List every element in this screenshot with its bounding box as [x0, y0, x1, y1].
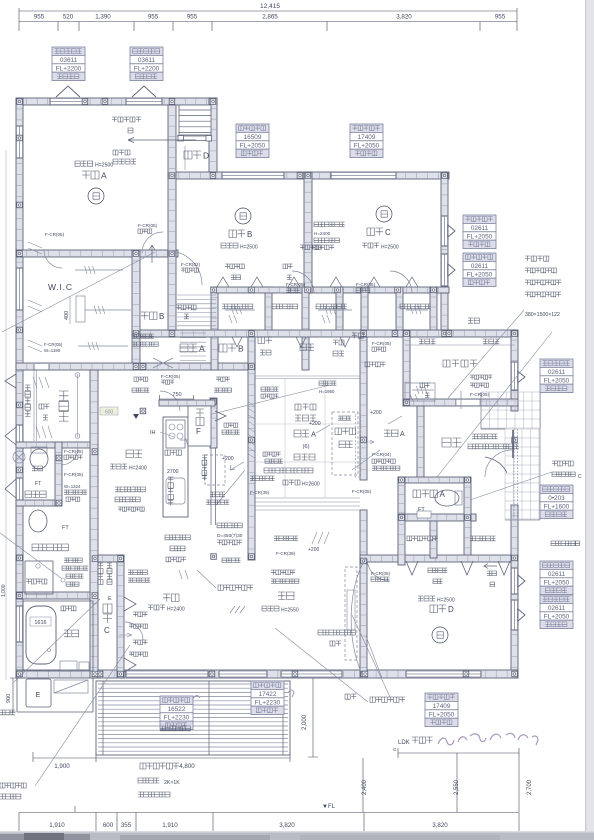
svg-text:02611: 02611 — [548, 605, 566, 612]
cloak label — [443, 360, 450, 367]
drying room hatch top — [33, 377, 49, 388]
bottom dimension line — [19, 812, 519, 814]
svg-text:B: B — [159, 312, 164, 321]
suno-ko shelf note hall B — [176, 305, 181, 310]
aircon dashed — [332, 412, 358, 475]
door arc kitchen — [160, 391, 180, 411]
wall kitchen top — [159, 400, 215, 406]
sansui label 1 — [352, 333, 357, 338]
porch dotted step lines — [514, 429, 518, 518]
upper shelf note small — [222, 558, 226, 562]
wall cloak bottom — [403, 399, 518, 406]
water filter note — [115, 487, 120, 492]
porch bottom left — [17, 678, 93, 712]
leader lighting note 2 — [275, 628, 368, 702]
door scope note — [64, 490, 68, 494]
room C label — [367, 228, 375, 236]
window living deck 1 — [219, 671, 267, 677]
washitsu fusuma track north — [255, 376, 360, 379]
bettsu FT note — [32, 466, 37, 471]
shelf note kitchen right — [216, 377, 220, 381]
living ceiling — [262, 606, 267, 611]
svg-text:17409: 17409 — [433, 703, 451, 710]
wall bottom outer — [16, 670, 518, 678]
svg-text:900: 900 — [6, 694, 12, 703]
svg-text:1,910: 1,910 — [162, 822, 178, 829]
svg-text:3,820: 3,820 — [432, 822, 448, 829]
left wall triangle symbol 2 — [5, 479, 16, 498]
drying pole — [77, 374, 79, 437]
svg-text:1,390: 1,390 — [95, 14, 111, 21]
entrance tile band vertical porch — [505, 429, 540, 520]
svg-text:955: 955 — [495, 14, 506, 21]
annotation window B — [236, 124, 269, 158]
window symbol C1 — [448, 225, 455, 237]
closet A label — [180, 344, 188, 352]
svg-text:LDK: LDK — [398, 740, 410, 746]
tv board dashed — [345, 567, 357, 660]
open label — [365, 362, 370, 367]
wall right outer upper — [511, 330, 518, 411]
svg-text:▼FL: ▼FL — [322, 804, 336, 810]
svg-text:750: 750 — [172, 392, 181, 398]
svg-text:2,865: 2,865 — [262, 14, 278, 21]
annotation window A1 — [52, 47, 85, 81]
svg-text:FL+2050: FL+2050 — [240, 142, 266, 149]
wall WIC / closet bottom — [16, 363, 255, 370]
arrow marks +200 — [230, 462, 244, 470]
wall cloak left — [403, 330, 410, 403]
svg-text:955: 955 — [148, 14, 159, 21]
svg-text:F-CR(05): F-CR(05) — [45, 232, 65, 237]
room B label — [229, 230, 237, 238]
svg-text:A: A — [440, 490, 446, 499]
window symbol D2 — [518, 609, 525, 621]
washbasin — [29, 510, 47, 532]
svg-text:3,820: 3,820 — [279, 822, 295, 829]
pipe 1 hon note room D — [428, 568, 433, 573]
window left laundry — [16, 562, 22, 590]
floor note living — [271, 570, 276, 575]
genkan door leaf — [512, 430, 514, 458]
pipe shelf note cloak — [420, 383, 425, 388]
electrical box E — [26, 679, 51, 707]
wall between B and C — [304, 172, 312, 293]
smoke mark room D — [432, 627, 448, 643]
deck step note — [138, 778, 143, 783]
wall right outer lower — [511, 505, 518, 678]
svg-text:02611: 02611 — [548, 571, 566, 578]
sunoko slat shelf hall B — [177, 295, 216, 326]
svg-text:F-CR(05): F-CR(05) — [371, 571, 391, 576]
svg-text:F-CR(05): F-CR(05) — [470, 392, 490, 397]
window left 5 — [16, 606, 22, 642]
washitsu east pocket dashed — [356, 414, 361, 477]
window D right 1 — [511, 568, 517, 594]
svg-text:1,910: 1,910 — [49, 822, 65, 829]
CL marker — [133, 414, 139, 419]
drying room hatch ticks — [36, 426, 52, 438]
svg-text:FL+2230: FL+2230 — [164, 714, 190, 721]
annotation window C — [350, 124, 383, 158]
svg-text:FL+1600: FL+1600 — [544, 503, 570, 510]
svg-text:H=2500: H=2500 — [437, 598, 455, 604]
window A1 — [50, 98, 86, 104]
svg-text:F-CR(05): F-CR(05) — [64, 449, 84, 454]
svg-text:F-CR(05): F-CR(05) — [356, 282, 376, 287]
kitchen ceiling note — [110, 464, 115, 469]
hall A label — [384, 430, 391, 437]
svg-text:B: B — [238, 344, 244, 354]
kitchen label — [126, 450, 134, 458]
wall washitsu right lower / room D left — [360, 510, 367, 678]
long leader across WIC — [2, 252, 155, 332]
scan artifact right edge band — [586, 0, 594, 840]
svg-text:03611: 03611 — [60, 57, 78, 64]
counter line kitchen — [211, 448, 216, 525]
katahikido note — [61, 606, 66, 611]
wall toilet B bottom — [16, 500, 62, 506]
closet swing marks upper row — [217, 277, 418, 287]
wall stair right — [209, 98, 217, 172]
right bottom dim frame — [75, 748, 519, 812]
toilet B label — [25, 491, 32, 498]
leader inspection — [216, 470, 245, 505]
room A ceiling note — [75, 161, 80, 166]
bath washing counter — [60, 661, 77, 670]
washitsu tatami grid — [255, 379, 360, 497]
svg-text:16522: 16522 — [168, 706, 186, 713]
washitsu no-sleep note — [264, 468, 269, 473]
toilet B bowl — [30, 449, 48, 469]
window left 2 — [16, 268, 22, 310]
kitchen vertical text column — [165, 450, 170, 455]
kasagi niche note — [165, 535, 170, 540]
window left 1 — [16, 126, 22, 158]
wall stair left — [168, 105, 176, 337]
wall toilet A left — [398, 477, 405, 521]
window B top — [222, 172, 284, 178]
window cloak right — [511, 362, 517, 390]
svg-text:3,820: 3,820 — [396, 14, 412, 21]
dining label — [163, 594, 171, 602]
closet B pipe — [225, 309, 255, 311]
svg-text:FL+2200: FL+2200 — [56, 65, 82, 72]
washitsu label — [294, 430, 301, 437]
hall B door chevron — [153, 358, 173, 368]
storage notes near dining closets — [128, 570, 133, 575]
chudan makura-dana labels — [333, 340, 338, 345]
svg-text:02611: 02611 — [548, 369, 566, 376]
bottom dimension ticks — [19, 813, 519, 832]
svg-text:+200: +200 — [370, 410, 382, 416]
door arc room D — [367, 558, 390, 581]
hall arrow — [366, 440, 374, 444]
svg-text:2K×1K: 2K×1K — [164, 780, 180, 786]
deck base note — [138, 792, 143, 797]
pipe 1 hon note room B — [225, 264, 230, 269]
top dimension line lower — [19, 21, 517, 23]
monoiri D divider — [184, 146, 186, 170]
svg-text:F-CR(05): F-CR(05) — [352, 489, 372, 494]
svg-text:C: C — [385, 228, 391, 237]
chukan shelf notes — [64, 558, 68, 562]
annotation room D 1 — [540, 561, 573, 595]
window C right 2 — [441, 254, 447, 286]
oshiire label — [300, 344, 307, 351]
wall closet C right — [117, 555, 124, 678]
door arc room C closet — [390, 271, 412, 293]
svg-text:955: 955 — [34, 14, 45, 21]
svg-text:H=2500: H=2500 — [95, 163, 113, 169]
svg-text:355: 355 — [121, 822, 132, 829]
svg-text:600: 600 — [105, 410, 114, 416]
washitsu ceiling note — [283, 480, 288, 485]
recessed washbasin note — [552, 461, 557, 466]
svg-text:F: F — [196, 427, 201, 436]
svg-text:FL+2050: FL+2050 — [429, 711, 455, 718]
WIC pipe shelf bottom — [78, 345, 128, 347]
indirect lighting note 1 — [218, 585, 223, 590]
svg-text:2700: 2700 — [167, 469, 179, 475]
window living deck 2 — [281, 671, 342, 677]
leader washroom — [0, 533, 61, 578]
top dimension line upper — [19, 10, 517, 12]
entrance tile band horizontal — [481, 392, 541, 429]
svg-text:(6): (6) — [302, 444, 309, 450]
svg-text:D: D — [448, 605, 454, 614]
svg-text:F-CR(05): F-CR(05) — [64, 472, 84, 477]
wall service column left — [90, 370, 98, 678]
washitsu door track south — [255, 498, 360, 510]
wall room D top / closet bottom — [360, 555, 511, 562]
600 small dim — [100, 407, 118, 415]
left outside dim line — [5, 150, 7, 680]
leader sansui — [352, 615, 390, 697]
toilet A bowl — [435, 490, 459, 506]
wall closet divider 1 — [211, 287, 218, 370]
svg-text:2,000: 2,000 — [302, 714, 308, 730]
svg-text:FL+2230: FL+2230 — [255, 699, 281, 706]
svg-text:H=2550: H=2550 — [281, 608, 299, 614]
wall washitsu right upper — [360, 330, 367, 480]
wall closet divider 2 upper — [265, 287, 272, 337]
WIC pipe shelf top — [75, 269, 123, 271]
svg-text:2,550: 2,550 — [454, 779, 460, 795]
annotation window C right 1 — [463, 215, 496, 249]
annotation window C right 2 — [463, 253, 496, 287]
closet C pipe — [318, 309, 352, 311]
leader wall basin — [470, 472, 552, 500]
stairs — [179, 105, 211, 135]
svg-text:IH: IH — [150, 430, 156, 436]
living label — [278, 592, 286, 600]
wall top rooms B C — [168, 172, 449, 179]
window symbol cloak — [518, 372, 525, 383]
window A2 — [126, 98, 162, 104]
pipe shelf note drying room — [39, 404, 44, 409]
closet A under-stair treads — [180, 333, 206, 361]
washroom label — [32, 544, 39, 551]
svg-text:0•203: 0•203 — [548, 495, 565, 502]
bath label — [64, 630, 71, 637]
counter label vertical — [25, 385, 31, 391]
chevron monoiri F — [215, 411, 226, 421]
window symbol D1 — [518, 575, 525, 587]
inspection hatch dashed — [205, 455, 225, 485]
wall closet D divider — [430, 521, 437, 558]
shelf leader dot — [61, 578, 65, 582]
door arc toilet B — [61, 448, 78, 465]
window C right 1 — [441, 216, 447, 246]
smoke mark room C — [376, 206, 392, 222]
svg-text:600: 600 — [103, 822, 114, 829]
svg-text:F-CR(05): F-CR(05) — [44, 342, 63, 347]
wall drying room bottom — [16, 442, 98, 448]
annotation window A2 — [130, 47, 163, 81]
wall closet divider 5 — [430, 287, 437, 337]
svg-text:A: A — [311, 430, 316, 439]
bath label 1616 — [30, 617, 51, 626]
wood deck — [96, 681, 290, 755]
annotation room D south — [425, 693, 458, 727]
laundry pan — [25, 561, 53, 594]
svg-text:D=450(7)30: D=450(7)30 — [217, 533, 243, 539]
window C top — [331, 172, 396, 178]
wall butsuma left — [302, 287, 309, 370]
svg-text:F-CR(05): F-CR(05) — [161, 374, 181, 379]
wall bath top — [16, 592, 98, 599]
window dining deck — [126, 671, 208, 677]
hall B floor note — [132, 334, 136, 338]
monoiri F label — [196, 409, 204, 417]
chudan shelf note room B — [283, 264, 288, 269]
monoiri C label vertical — [103, 604, 112, 613]
svg-text:16509: 16509 — [244, 134, 262, 141]
door arc room B hall — [168, 251, 202, 285]
toilet A label — [413, 490, 421, 498]
window symbol C2 — [448, 264, 455, 276]
wall right room C — [441, 173, 448, 337]
svg-text:D: D — [203, 151, 209, 161]
chudan note room D — [487, 571, 492, 576]
leader lighting note — [197, 570, 216, 588]
wall WIC right — [132, 250, 140, 370]
top dimension ticks — [19, 8, 517, 31]
svg-text:C: C — [104, 626, 110, 635]
handwritten purple note — [438, 733, 538, 745]
svg-text:F-CR(04): F-CR(04) — [372, 452, 392, 457]
monohoshi room label vertical — [59, 391, 69, 401]
upper lower closet E vertical — [98, 563, 103, 568]
leader hall floor — [352, 450, 380, 470]
left wall triangle symbol 1 — [5, 427, 16, 445]
storage door note bottom left — [0, 783, 5, 788]
WIC shelf bracket — [76, 296, 85, 322]
svg-text:C: C — [578, 474, 582, 480]
window symbol A2 — [132, 86, 156, 97]
svg-text:B: B — [247, 230, 252, 239]
svg-text:W.I.C: W.I.C — [48, 282, 73, 292]
svg-text:F-CR(05): F-CR(05) — [138, 223, 158, 228]
svg-text:12,415: 12,415 — [260, 3, 280, 10]
svg-text:F-CR(39): F-CR(39) — [250, 490, 270, 495]
stairs lower landing — [177, 136, 212, 141]
deck dimension line 1,900 / 4,800 — [33, 752, 290, 762]
outset door note — [470, 375, 474, 379]
closet B label — [219, 344, 227, 352]
leader storage door note — [35, 645, 130, 786]
IH cooktop — [166, 420, 185, 448]
annotation wall basin — [540, 485, 573, 519]
leader across bath — [14, 599, 100, 682]
wall toilet A top — [398, 477, 470, 483]
cloak shelf line — [405, 344, 515, 346]
window symbol A1 — [56, 86, 80, 97]
leader entrance diagonal — [437, 332, 552, 477]
room C partition note — [314, 222, 319, 227]
svg-text:H=2500: H=2500 — [240, 245, 258, 251]
svg-text:+200: +200 — [222, 456, 234, 462]
wall closet divider 6 — [361, 287, 368, 337]
svg-text:FL+2200: FL+2200 — [134, 65, 160, 72]
hall B label — [141, 312, 149, 320]
svg-text:FL+2050: FL+2050 — [467, 233, 493, 240]
shelf 6 labels — [419, 339, 424, 344]
stair arrow vertical — [149, 245, 155, 263]
svg-text:H=2600: H=2600 — [302, 482, 320, 488]
wall hall south / closet row bottom — [140, 330, 449, 337]
svg-text:FT: FT — [35, 481, 41, 487]
room C ceiling note — [362, 243, 367, 248]
tv board note — [318, 630, 323, 635]
svg-text:955: 955 — [187, 14, 198, 21]
svg-text:FL+2050: FL+2050 — [467, 271, 493, 278]
room B ceiling note — [221, 243, 226, 248]
wall toilet B right — [55, 442, 62, 506]
closet C side chevrons — [124, 597, 136, 672]
svg-text:F-CR(02): F-CR(02) — [181, 262, 201, 267]
svg-text:FT: FT — [62, 525, 69, 531]
svg-text:H=2400: H=2400 — [129, 466, 147, 472]
wall top room A — [16, 98, 217, 105]
wall closet D left — [398, 514, 405, 565]
genkan label — [442, 438, 451, 447]
wall room A bottom — [16, 250, 178, 257]
door arc entrance — [485, 450, 512, 477]
room D label — [430, 605, 438, 613]
door arc bath — [125, 622, 143, 640]
wood deck label — [140, 763, 146, 769]
svg-text:1616: 1616 — [34, 620, 46, 626]
wall closet divider 3 — [336, 287, 343, 337]
wall closet divider 4 — [396, 287, 403, 337]
svg-text:4,800: 4,800 — [179, 763, 195, 770]
svg-text:03611: 03611 — [138, 57, 156, 64]
svg-text:FL+2050: FL+2050 — [354, 142, 380, 149]
wall toilet A right — [464, 477, 471, 558]
svg-text:F-CR(39): F-CR(39) — [276, 551, 296, 556]
bathtub — [23, 601, 93, 671]
smoke mark room B — [235, 208, 251, 224]
door arc room A — [142, 232, 163, 253]
genkan step edge — [481, 428, 505, 430]
svg-text:W=1190: W=1190 — [44, 348, 61, 353]
svg-text:17409: 17409 — [358, 134, 376, 141]
svg-text:FL+2050: FL+2050 — [544, 613, 570, 620]
closet D stairs label — [184, 151, 192, 159]
laundry pan label — [26, 579, 31, 584]
